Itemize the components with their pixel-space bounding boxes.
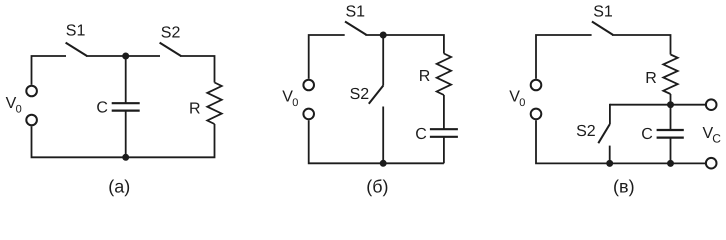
label V0, circuit a <box>6 95 22 116</box>
wire: resistor to bottom rail, circuit a <box>32 124 215 157</box>
capacitor C bottom lead, circuit a <box>125 111 127 158</box>
wire: resistor lower lead, circuit v <box>670 94 672 105</box>
source V0 terminal top, circuit a <box>26 86 37 97</box>
wire: middle rail to output terminal, circuit v <box>610 104 705 106</box>
capacitor C plates, circuit v <box>657 130 684 138</box>
node: bottom junction dot, circuit a <box>122 154 129 161</box>
wire: left rail upper, circuit v <box>536 35 592 79</box>
svg-text:0: 0 <box>519 97 525 109</box>
wire: top rail S2 to right corner, circuit a <box>180 56 215 83</box>
wire: bottom rail, circuit b <box>309 120 444 163</box>
output terminal top, circuit v <box>706 99 717 110</box>
wire: resistor to capacitor, circuit b <box>443 95 445 129</box>
svg-text:C: C <box>96 100 108 117</box>
svg-text:S1: S1 <box>593 4 613 21</box>
wire: left rail upper, circuit b <box>309 35 345 79</box>
svg-text:R: R <box>189 100 201 117</box>
source V0 terminal bottom, circuit a <box>26 115 37 126</box>
node: top junction dot, circuit b <box>380 32 387 39</box>
source V0 terminal bottom, circuit v <box>531 109 542 120</box>
node: bottom junction dot, circuit b <box>380 160 387 167</box>
svg-text:S2: S2 <box>161 24 181 41</box>
switch S2 blade, circuit v <box>598 124 610 143</box>
source V0 terminal top, circuit v <box>531 80 542 91</box>
svg-text:C: C <box>712 132 721 146</box>
svg-text:S2: S2 <box>576 123 596 140</box>
capacitor C plates, circuit a <box>112 103 140 110</box>
svg-text:S1: S1 <box>346 4 366 21</box>
capacitor C plates, circuit b <box>430 129 458 137</box>
svg-text:(б): (б) <box>366 177 388 197</box>
node: S2 bottom junction dot, circuit v <box>606 160 613 167</box>
wire: top rail S1 pivot to right corner, circuit b <box>365 35 444 54</box>
switch S1 blade, circuit a <box>66 43 87 56</box>
wire: bottom rail, circuit v <box>536 120 705 163</box>
capacitor C top lead, circuit v <box>670 105 672 130</box>
svg-text:C: C <box>415 126 427 143</box>
switch S2 upper lead, circuit v <box>609 104 611 124</box>
capacitor C bottom lead, circuit b <box>443 137 445 164</box>
source V0 terminal bottom, circuit b <box>303 109 314 120</box>
svg-text:0: 0 <box>292 97 298 109</box>
svg-text:(в): (в) <box>613 177 635 197</box>
wire: top rail S1 pivot to right corner, circuit v <box>612 35 671 55</box>
output terminal bottom, circuit v <box>706 158 717 169</box>
svg-text:S1: S1 <box>66 23 86 40</box>
resistor R zigzag, circuit b <box>437 54 451 96</box>
source V0 terminal top, circuit b <box>303 80 314 91</box>
switch S2 lower contact wire, circuit v <box>609 146 611 164</box>
svg-text:R: R <box>645 70 657 87</box>
label VC output voltage, circuit v <box>703 125 722 145</box>
svg-text:C: C <box>641 126 653 143</box>
svg-text:S2: S2 <box>350 86 370 103</box>
switch S2 blade, circuit a <box>160 43 181 56</box>
resistor R zigzag, circuit a <box>207 83 221 125</box>
switch S2 blade, circuit b <box>369 86 384 104</box>
switch S1 blade, circuit v <box>592 22 613 35</box>
node: top junction dot, circuit a <box>122 53 129 60</box>
svg-text:0: 0 <box>16 104 22 116</box>
wire: top rail S1 to S2, circuit a <box>86 55 160 57</box>
svg-text:(а): (а) <box>108 177 130 197</box>
capacitor C bottom lead, circuit v <box>670 138 672 164</box>
label V0, circuit b <box>282 89 298 110</box>
switch S2 lower contact wire, circuit b <box>382 107 384 164</box>
svg-text:R: R <box>419 68 431 85</box>
switch S2 upper lead, circuit b <box>382 35 384 86</box>
label V0, circuit v <box>509 89 525 110</box>
wire: left rail upper, circuit a <box>32 56 67 85</box>
switch S1 blade, circuit b <box>345 22 366 35</box>
capacitor C top lead, circuit a <box>125 56 127 103</box>
node: C bottom junction dot, circuit v <box>667 160 674 167</box>
resistor R zigzag, circuit v <box>663 55 677 95</box>
node: middle junction dot, circuit v <box>667 101 674 108</box>
